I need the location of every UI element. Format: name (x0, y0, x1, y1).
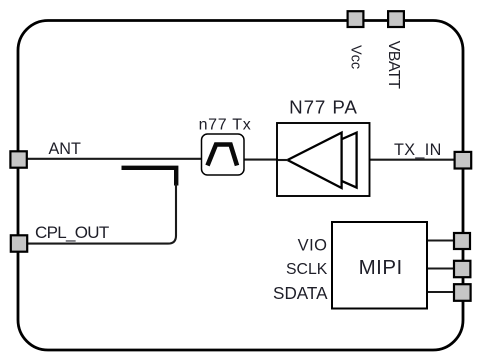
pin MIPI VIO (454, 233, 470, 249)
pin TX_IN (455, 152, 472, 169)
label Vcc (348, 45, 364, 69)
label TX_IN (394, 141, 442, 159)
label VBATT (385, 41, 402, 90)
wire MIPI VIO to pin (427, 240, 454, 242)
wire MIPI SDATA to pin (427, 291, 454, 293)
svg-text:SCLK: SCLK (286, 261, 328, 278)
pin label SDATA (273, 284, 328, 303)
svg-text:TX_IN: TX_IN (394, 141, 442, 159)
wire PA to TX_IN pin (369, 159, 454, 161)
pin ANT (10, 151, 26, 167)
pin CPL_OUT (11, 235, 27, 251)
wire MIPI SCLK to pin (427, 268, 454, 270)
label N77 PA (289, 97, 358, 118)
pin MIPI SDATA (454, 284, 471, 301)
amplifier PA box (277, 123, 370, 196)
wire PA internal input (278, 159, 288, 161)
label n77 Tx (199, 117, 252, 134)
pin VBATT (388, 11, 404, 27)
pin MIPI SCLK (454, 261, 470, 277)
svg-text:CPL_OUT: CPL_OUT (35, 223, 109, 242)
block MIPI (332, 222, 427, 309)
wire ANT to filter (27, 158, 202, 160)
pin label SCLK (286, 261, 328, 278)
filter FL1 n77 Tx (bandpass) (202, 134, 245, 175)
label MIPI (359, 256, 403, 279)
svg-text:SDATA: SDATA (273, 284, 328, 303)
svg-text:MIPI: MIPI (359, 256, 403, 279)
wire filter to PA (243, 159, 278, 161)
coupler coupled-line (thick) (122, 168, 177, 186)
svg-text:Vcc: Vcc (348, 45, 364, 69)
svg-text:VBATT: VBATT (385, 41, 402, 90)
amplifier second stage triangle (295, 133, 357, 188)
pin label VIO (298, 236, 328, 254)
svg-text:VIO: VIO (298, 236, 328, 254)
amplifier first stage triangle (288, 133, 342, 188)
label CPL_OUT (35, 223, 109, 242)
wire coupler to CPL_OUT pin (28, 184, 176, 244)
label ANT (49, 140, 81, 158)
svg-text:n77 Tx: n77 Tx (199, 117, 252, 134)
svg-text:N77 PA: N77 PA (289, 97, 358, 118)
pin Vcc (348, 11, 364, 27)
svg-text:ANT: ANT (49, 140, 81, 158)
